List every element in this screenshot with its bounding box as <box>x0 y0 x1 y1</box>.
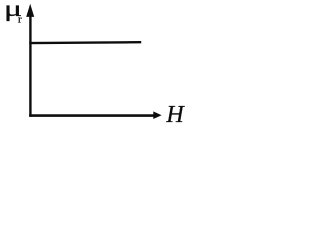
x-axis (horizontal axis) wire <box>29 114 154 117</box>
x-axis arrowhead <box>153 111 161 119</box>
svg-text:r: r <box>18 14 22 26</box>
y-axis arrowhead <box>26 4 34 17</box>
plateau line (constant mu_r curve) <box>29 41 141 44</box>
axis label mu_r <box>4 0 22 26</box>
svg-text:H: H <box>165 102 185 128</box>
y-axis (vertical axis) wire <box>29 12 31 117</box>
